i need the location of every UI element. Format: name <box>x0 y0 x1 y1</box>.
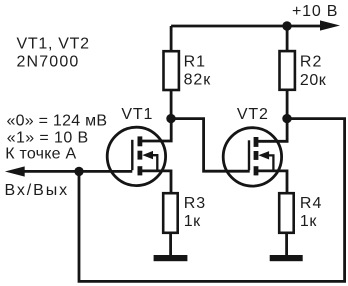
svg-text:«0» = 124 мВ: «0» = 124 мВ <box>7 113 108 130</box>
wire: R1 bottom to VT1 drain node <box>170 90 173 119</box>
wire: input/output line with VT1 gate lead <box>21 170 132 173</box>
transistor VT2 <box>223 119 287 193</box>
VT2 body-source link <box>269 155 274 171</box>
VT1 drain wire <box>140 119 171 141</box>
svg-text:К точке А: К точке А <box>5 145 76 162</box>
wire: cross-coupling VT1 drain to VT2 gate <box>171 119 250 172</box>
VT1 body-source link <box>153 155 158 171</box>
VT1 source wire <box>140 171 171 193</box>
VT2 drain wire <box>256 119 287 142</box>
svg-text:VT1, VT2: VT1, VT2 <box>17 36 90 53</box>
svg-text:R1: R1 <box>184 53 206 70</box>
wire: rail to R1 top <box>170 26 173 51</box>
VT1 circle <box>107 127 165 185</box>
svg-text:VT1: VT1 <box>121 106 153 123</box>
VT2 drain bar <box>254 137 259 147</box>
VT2 body bar <box>254 151 259 160</box>
VT2 source wire <box>256 171 287 193</box>
arrowhead +10V <box>320 20 340 30</box>
VT1 gate line <box>131 140 133 170</box>
wire: R3 to ground <box>169 233 172 256</box>
svg-text:1к: 1к <box>184 213 201 230</box>
VT1 source bar <box>138 166 143 175</box>
VT2 gate line <box>248 140 250 170</box>
node dot: input node <box>74 167 83 176</box>
svg-text:R3: R3 <box>184 195 206 212</box>
svg-text:82к: 82к <box>184 72 212 89</box>
svg-text:2N7000: 2N7000 <box>17 54 80 71</box>
VT1 body bar <box>138 151 143 160</box>
svg-text:R4: R4 <box>300 195 322 212</box>
svg-text:+10 В: +10 В <box>292 3 338 20</box>
arrowhead input (points left) <box>5 166 25 176</box>
resistor R1 <box>164 51 179 90</box>
VT1 drain bar <box>138 136 143 146</box>
wire: R4 to ground <box>285 233 288 256</box>
transistor VT1 <box>107 119 171 194</box>
node dot: supply/R2 junction <box>282 21 291 30</box>
ground bar (R4) <box>270 255 303 261</box>
svg-text:R2: R2 <box>300 54 322 71</box>
svg-text:20к: 20к <box>300 72 327 89</box>
svg-text:VT2: VT2 <box>237 106 269 123</box>
resistor R2 <box>280 51 295 90</box>
ground bar (R3) <box>154 255 188 261</box>
wire: R2 top drop <box>286 26 289 51</box>
VT2 source bar <box>254 166 259 175</box>
svg-text:Вх/Вых: Вх/Вых <box>5 182 70 199</box>
svg-text:«1» = 10 В: «1» = 10 В <box>7 129 89 146</box>
resistor R3 <box>163 193 178 233</box>
resistor R4 <box>279 193 294 233</box>
node dot: VT2 drain node <box>282 114 291 123</box>
VT2 body arrow <box>258 151 269 159</box>
wire: +10V supply rail <box>171 25 324 28</box>
VT1 body arrow <box>142 151 153 159</box>
wire: feedback loop VT2 drain to input node <box>79 119 345 282</box>
wire: R2 bottom to VT2 drain node <box>286 90 289 119</box>
VT2 circle <box>223 128 281 186</box>
node dot: VT1 drain node <box>166 114 175 123</box>
svg-text:1к: 1к <box>300 213 317 230</box>
